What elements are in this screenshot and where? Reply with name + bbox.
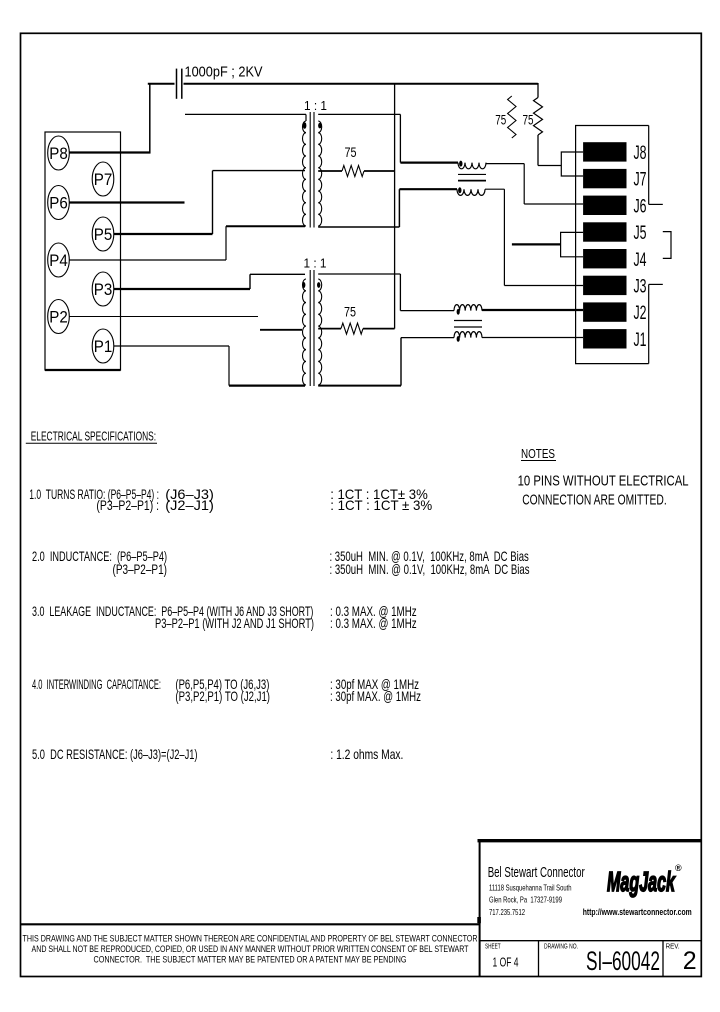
svg-text:J3: J3	[634, 276, 647, 298]
svg-text:(J2–J1): (J2–J1)	[165, 497, 214, 513]
svg-text:ELECTRICAL SPECIFICATIONS:: ELECTRICAL SPECIFICATIONS:	[31, 429, 156, 444]
svg-text:75: 75	[523, 112, 534, 128]
svg-text:75: 75	[344, 304, 356, 320]
svg-text:(P3–P2–P1): (P3–P2–P1)	[113, 561, 168, 577]
svg-text:MagJack: MagJack	[607, 866, 676, 897]
svg-text:(P3–P2–P1) :: (P3–P2–P1) :	[96, 497, 159, 513]
svg-text:P6: P6	[49, 194, 68, 212]
svg-text:SHEET: SHEET	[485, 941, 501, 950]
svg-text:REV.: REV.	[666, 941, 680, 950]
svg-text:J4: J4	[634, 249, 647, 271]
svg-text:J1: J1	[634, 329, 647, 351]
svg-text:75: 75	[495, 112, 506, 128]
svg-text:: 30pf MAX. @ 1MHz: : 30pf MAX. @ 1MHz	[330, 688, 421, 704]
svg-text:4.0 INTERWINDING CAPACITANCE: 4.0 INTERWINDING CAPACITANCE:	[32, 676, 161, 692]
svg-text:10 PINS WITHOUT ELECTRICAL: 10 PINS WITHOUT ELECTRICAL	[518, 473, 689, 490]
svg-text:P4: P4	[49, 252, 68, 270]
svg-text:1 OF 4: 1 OF 4	[493, 955, 519, 970]
svg-text:: 1CT : 1CT ± 3%: : 1CT : 1CT ± 3%	[330, 497, 432, 513]
svg-text:11118 Susquehanna Trail South: 11118 Susquehanna Trail South	[489, 882, 572, 892]
svg-text:1 : 1: 1 : 1	[304, 98, 327, 113]
svg-text:DRAWING NO.: DRAWING NO.	[544, 941, 578, 950]
svg-text:P2: P2	[49, 308, 68, 326]
svg-text:717.235.7512: 717.235.7512	[489, 907, 525, 917]
svg-text:2: 2	[683, 947, 697, 975]
svg-text:J6: J6	[634, 195, 647, 217]
svg-text:: 0.3 MAX. @ 1MHz: : 0.3 MAX. @ 1MHz	[330, 615, 417, 631]
svg-text:CONNECTION ARE OMITTED.: CONNECTION ARE OMITTED.	[522, 492, 667, 509]
svg-text:Bel Stewart Connector: Bel Stewart Connector	[488, 864, 585, 881]
svg-text:J7: J7	[634, 169, 647, 191]
svg-text:AND SHALL NOT BE REPRODUCED, C: AND SHALL NOT BE REPRODUCED, COPIED, OR …	[32, 944, 469, 954]
svg-text:SI–60042: SI–60042	[586, 946, 660, 976]
svg-text:1000pF ; 2KV: 1000pF ; 2KV	[185, 64, 263, 81]
svg-text:Glen Rock, Pa 17327-9199: Glen Rock, Pa 17327-9199	[489, 895, 562, 905]
svg-text:CONNECTOR. THE SUBJECT MATTER: CONNECTOR. THE SUBJECT MATTER MAY BE PAT…	[94, 955, 407, 965]
svg-text:: 350uH MIN. @ 0.1V, 100KHz,: : 350uH MIN. @ 0.1V, 100KHz, 8mA DC Bias	[330, 561, 530, 577]
svg-text:(P3,P2,P1) TO (J2,J1): (P3,P2,P1) TO (J2,J1)	[175, 688, 270, 704]
svg-text:J8: J8	[634, 142, 647, 164]
svg-text:THIS DRAWING AND THE SUBJECT M: THIS DRAWING AND THE SUBJECT MATTER SHOW…	[23, 934, 478, 944]
svg-text:75: 75	[345, 144, 357, 160]
svg-text:P8: P8	[49, 145, 68, 163]
svg-text:P1: P1	[94, 338, 113, 356]
svg-text:1 : 1: 1 : 1	[304, 256, 327, 271]
svg-text:P3–P2–P1 (WITH J2 AND J1 SHORT: P3–P2–P1 (WITH J2 AND J1 SHORT)	[155, 615, 314, 631]
svg-text:J2: J2	[634, 302, 647, 324]
svg-text:NOTES: NOTES	[521, 447, 555, 461]
svg-text:P5: P5	[94, 226, 113, 244]
svg-text:P3: P3	[94, 281, 113, 299]
svg-text:J5: J5	[634, 222, 647, 244]
svg-text:http://www.stewartconnector.co: http://www.stewartconnector.com	[583, 907, 692, 918]
svg-text:®: ®	[675, 863, 682, 873]
svg-text:: 1.2 ohms Max.: : 1.2 ohms Max.	[330, 746, 403, 762]
svg-text:P7: P7	[94, 171, 113, 189]
svg-text:5.0 DC RESISTANCE: (J6–J3)=(J: 5.0 DC RESISTANCE: (J6–J3)=(J2–J1)	[32, 746, 198, 762]
